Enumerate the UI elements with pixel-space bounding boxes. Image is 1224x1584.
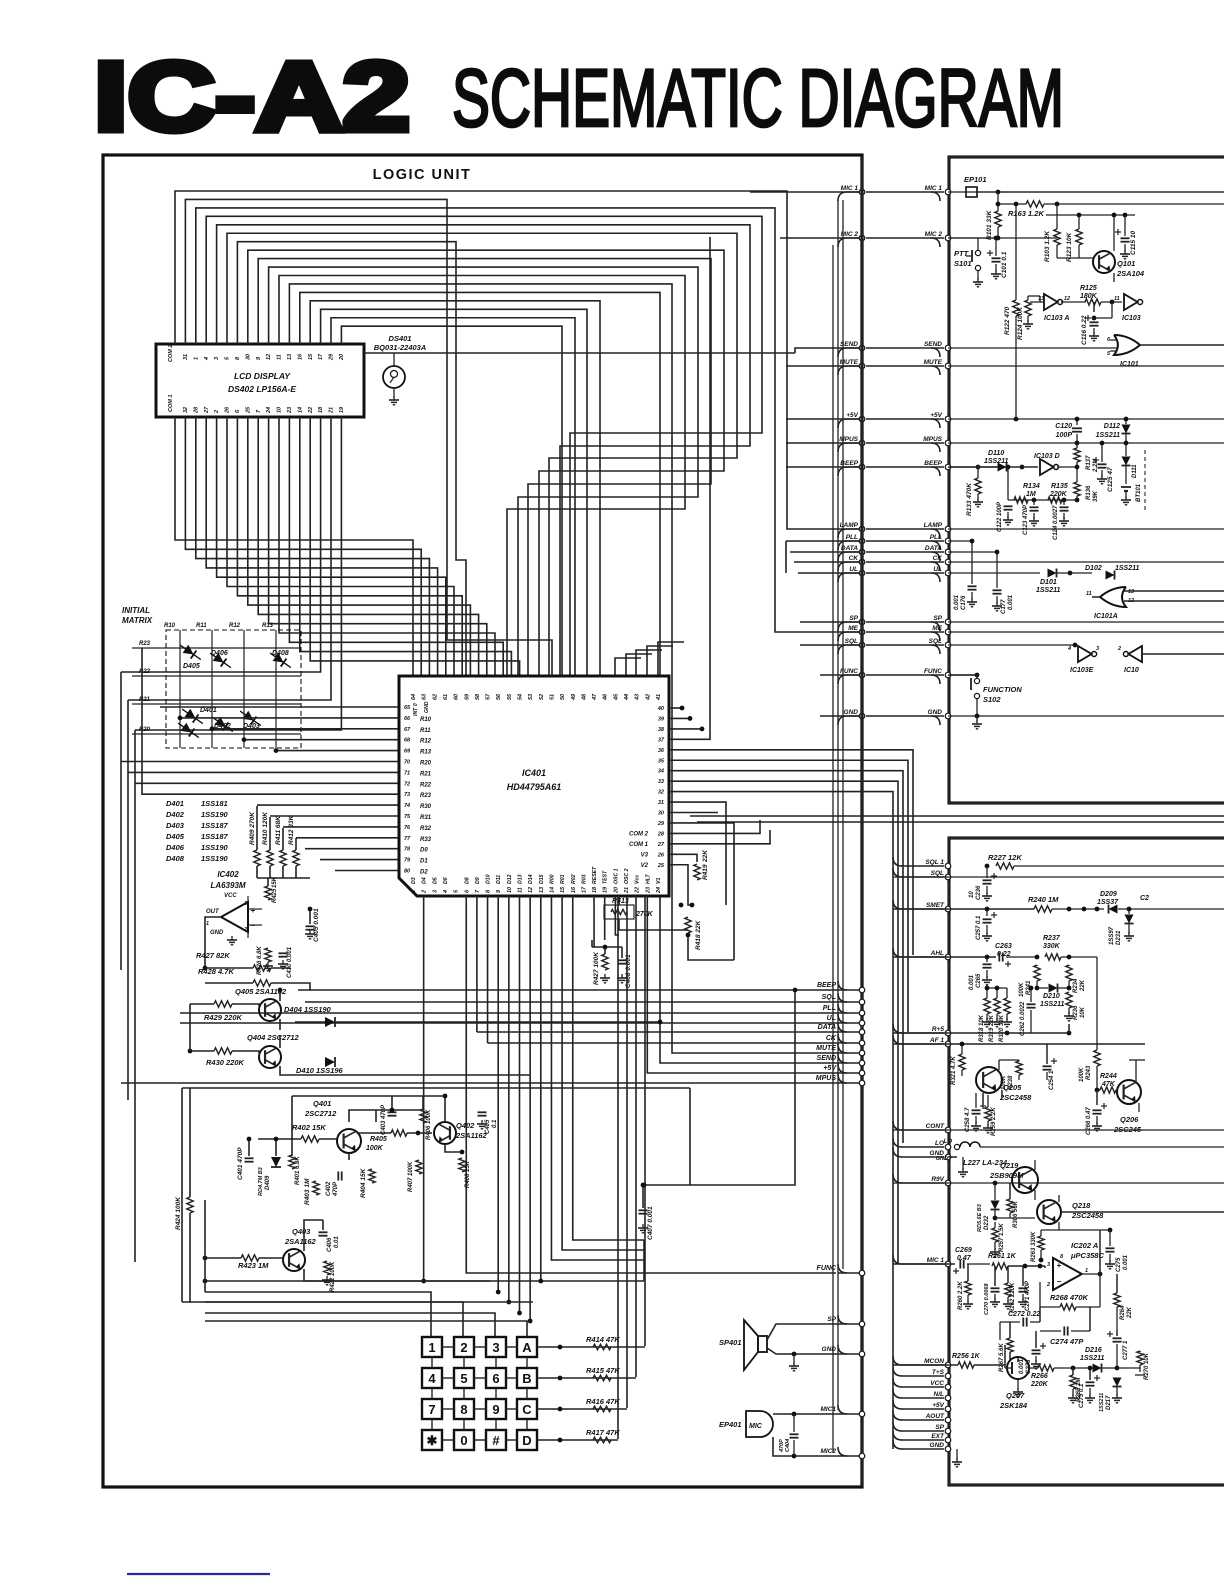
svg-text:R410 120K: R410 120K [262,811,269,845]
svg-text:IC202 A: IC202 A [1071,1241,1098,1250]
svg-text:C116 0.22: C116 0.22 [1081,315,1088,345]
svg-text:C403 470P: C403 470P [381,1104,387,1135]
inductor L227 [954,1144,959,1149]
logic unit right rail [860,157,863,1485]
svg-text:GND: GND [210,930,224,936]
svg-text:1: 1 [411,890,417,893]
svg-text:18: 18 [318,406,324,413]
svg-text:1SS211: 1SS211 [984,458,1008,465]
svg-text:MIC 2: MIC 2 [925,231,943,238]
svg-text:R404 15K: R404 15K [360,1167,367,1198]
svg-text:C101 0.1: C101 0.1 [1001,251,1008,278]
svg-text:47: 47 [592,693,598,701]
svg-text:IC10: IC10 [1124,667,1139,674]
R238 C254 [1016,1061,1022,1075]
svg-text:100K: 100K [1001,1075,1007,1090]
resistors R409 R410 R411 R412 R425 [254,850,260,866]
svg-text:R401 6.8K: R401 6.8K [295,1156,301,1185]
svg-text:C275: C275 [1116,1257,1122,1272]
svg-text:C406: C406 [327,1237,333,1252]
resistors R318 R319 R320 C262 [986,988,988,998]
svg-text:R133 470K: R133 470K [966,482,973,516]
svg-text:4: 4 [428,1371,436,1386]
R260 C270 R262 C271 [965,1281,971,1295]
svg-text:D110: D110 [988,450,1004,457]
op-amp IC202A [1053,1258,1082,1290]
svg-text:R33: R33 [420,837,432,843]
svg-text:2SB909M: 2SB909M [989,1171,1024,1180]
svg-text:R267 5.6K: R267 5.6K [999,1343,1005,1372]
svg-text:DS402 LP156A-E: DS402 LP156A-E [228,384,296,394]
svg-text:R103 1.2K: R103 1.2K [1044,230,1051,262]
svg-text:SMET: SMET [926,902,945,909]
svg-text:D4: D4 [422,877,428,884]
svg-text:R9V: R9V [931,1176,944,1183]
svg-text:43: 43 [635,694,641,701]
svg-text:R402 15K: R402 15K [292,1123,326,1132]
resistors R414 R415 R416 R417 [537,1346,645,1348]
svg-text:R234: R234 [1073,978,1079,993]
transistor Q218 [1037,1200,1061,1224]
svg-text:Q219: Q219 [1000,1161,1019,1170]
wire bus LCD top pins to IC401 [175,191,862,529]
svg-text:D0: D0 [420,848,428,854]
svg-text:R406 100K: R406 100K [426,1109,432,1140]
svg-text:30: 30 [245,354,251,360]
svg-text:R260 2.2K: R260 2.2K [958,1281,964,1310]
svg-text:1SS211: 1SS211 [1080,1355,1104,1362]
svg-text:D209: D209 [1100,891,1117,898]
svg-text:C254 1: C254 1 [1049,1070,1055,1090]
svg-text:Q403: Q403 [292,1227,311,1236]
svg-text:61: 61 [443,694,449,700]
svg-text:D12: D12 [507,874,513,884]
resistor R163 [1026,201,1044,207]
keypad matrix 4x4 [422,1337,442,1357]
svg-text:R136: R136 [1086,485,1092,500]
svg-text:LO: LO [944,1139,953,1145]
svg-text:76: 76 [404,825,411,831]
svg-text:LO: LO [935,1140,944,1147]
svg-text:C408 0.001: C408 0.001 [625,954,632,988]
svg-text:V3: V3 [641,852,649,858]
main unit row wires [948,191,1224,193]
svg-text:17: 17 [318,353,324,360]
svg-text:49: 49 [571,693,577,701]
svg-text:0.1: 0.1 [492,1119,498,1128]
svg-text:COM 1: COM 1 [168,395,174,412]
svg-text:11: 11 [1086,591,1092,597]
svg-text:+: + [1057,1261,1062,1270]
wire inter-unit horizontals [690,815,1224,817]
svg-text:20: 20 [339,354,345,361]
wire CONT row [893,1129,1224,1131]
svg-text:UL: UL [933,566,942,573]
svg-text:SEND: SEND [924,341,942,348]
svg-text:ME: ME [932,625,942,632]
svg-text:R11: R11 [420,728,431,734]
or-gate IC101A [1100,587,1126,607]
svg-text:1SS211: 1SS211 [1036,587,1060,594]
svg-text:D6: D6 [443,877,449,884]
svg-text:52: 52 [539,694,545,700]
svg-text:Q207: Q207 [1006,1391,1025,1400]
svg-text:IC103 D: IC103 D [1034,453,1060,460]
svg-text:69: 69 [404,749,411,755]
resistor R263 [1038,1236,1044,1250]
wire IC401 bottom pin routing [205,1292,431,1337]
svg-text:R306 56K: R306 56K [1013,1200,1019,1228]
svg-text:1: 1 [428,1340,435,1355]
svg-text:3: 3 [492,1340,499,1355]
svg-text:C123 470P: C123 470P [1023,504,1029,535]
svg-text:OUT: OUT [206,909,220,915]
initial matrix dashed box [166,630,301,748]
svg-text:C176: C176 [961,595,967,610]
svg-text:40: 40 [657,706,664,712]
svg-text:5: 5 [460,1371,467,1386]
svg-text:12: 12 [266,354,272,360]
svg-text:2SA1162: 2SA1162 [455,1131,488,1140]
svg-text:1SS190: 1SS190 [201,843,229,852]
svg-text:22K: 22K [1127,1306,1133,1319]
svg-text:SP: SP [933,615,942,622]
svg-text:C120: C120 [1055,423,1072,430]
svg-text:D408: D408 [272,650,289,657]
svg-text:D406: D406 [211,650,228,657]
svg-text:D13: D13 [518,874,524,884]
resistor R240 diode D209 [1034,906,1052,912]
svg-text:3: 3 [244,901,247,907]
capacitor C407 [639,1209,648,1211]
svg-text:58: 58 [475,693,481,700]
svg-text:12: 12 [528,887,534,893]
capacitor C274 [1063,1327,1065,1336]
svg-text:D408: D408 [166,854,185,863]
svg-text:11: 11 [518,887,524,893]
svg-text:10: 10 [507,887,513,893]
resistor R268 [1060,1304,1076,1310]
svg-text:16: 16 [297,353,303,360]
svg-text:35: 35 [658,758,665,764]
svg-text:D111: D111 [1132,464,1138,478]
capacitor C115 [1121,237,1130,239]
svg-text:R416 47K: R416 47K [586,1397,620,1406]
microcontroller U IC401 [399,676,669,896]
svg-text:R22: R22 [139,669,151,675]
svg-text:C115 10: C115 10 [1130,231,1137,255]
resistor R237 [1045,954,1061,960]
svg-text:22K: 22K [1080,979,1086,992]
svg-text:26: 26 [657,852,665,858]
svg-text:R125: R125 [1080,285,1097,292]
svg-text:SQL: SQL [822,994,836,1001]
svg-text:C124 0.0027: C124 0.0027 [1053,505,1059,540]
svg-text:70: 70 [404,760,410,766]
svg-text:MUTE: MUTE [924,359,943,366]
svg-text:R02: R02 [571,874,577,884]
svg-text:1SS187: 1SS187 [201,821,229,830]
svg-text:68: 68 [404,738,411,744]
svg-text:DS401: DS401 [389,334,412,343]
svg-text:C236: C236 [976,885,982,900]
diode D111 battery BT101 [1125,443,1127,456]
svg-text:0.001: 0.001 [954,594,960,610]
svg-text:R430 220K: R430 220K [206,1058,245,1067]
svg-text:R22: R22 [420,782,432,788]
svg-text:0.01: 0.01 [334,1236,340,1248]
svg-text:62: 62 [432,694,438,700]
transistor Q219 [1012,1167,1038,1193]
svg-text:IC101: IC101 [1120,361,1139,368]
svg-text:77: 77 [404,836,411,842]
svg-text:OSC 1: OSC 1 [613,868,619,884]
resistors R134 R135 [1007,467,1009,500]
svg-text:R407 100K: R407 100K [408,1161,414,1192]
svg-text:B: B [522,1371,531,1386]
svg-text:67: 67 [404,727,411,733]
svg-text:100K: 100K [366,1145,384,1152]
svg-text:1SS190: 1SS190 [201,854,229,863]
svg-text:100K: 100K [1079,1067,1085,1082]
svg-text:PLL: PLL [930,534,942,541]
svg-text:25: 25 [245,406,251,414]
svg-text:2SC2458: 2SC2458 [999,1093,1032,1102]
svg-text:C: C [522,1402,532,1417]
capacitors C176 C177 [971,541,973,584]
svg-text:10: 10 [969,891,975,898]
svg-text:D9: D9 [475,877,481,884]
svg-text:24: 24 [656,887,662,894]
svg-text:28: 28 [657,831,665,837]
svg-text:2: 2 [422,890,428,894]
svg-text:220K: 220K [1030,1381,1049,1388]
svg-text:R259 2.2K: R259 2.2K [991,1107,997,1136]
resistor R424 [187,1197,193,1213]
svg-text:FUNC: FUNC [924,668,942,675]
svg-text:C404: C404 [785,1439,791,1452]
svg-text:D410 1SS196: D410 1SS196 [296,1066,344,1075]
svg-text:UL: UL [849,566,858,573]
resistor R257 [992,1228,998,1242]
diode D231 [1128,909,1130,914]
svg-text:R403 1M: R403 1M [304,1178,311,1205]
svg-text:CK: CK [933,555,944,562]
svg-text:LCD DISPLAY: LCD DISPLAY [234,371,291,381]
svg-text:D231: D231 [1116,930,1122,945]
svg-text:IC103E: IC103E [1070,667,1094,674]
svg-text:DATA: DATA [925,545,942,552]
svg-text:D14: D14 [528,874,534,884]
svg-text:0: 0 [460,1433,467,1448]
wire left wall bus [120,672,122,970]
svg-text:45: 45 [613,693,619,701]
svg-text:30: 30 [658,811,664,817]
svg-text:Q402: Q402 [456,1121,475,1130]
svg-text:R414 47K: R414 47K [586,1335,620,1344]
svg-text:1SS211: 1SS211 [1115,565,1139,572]
svg-text:1SS37: 1SS37 [1097,899,1119,906]
resistors R103 R123 [1054,229,1060,245]
svg-text:C277 1: C277 1 [1123,1340,1129,1360]
C258 R259 [972,1109,981,1111]
svg-text:R426 6.8K: R426 6.8K [257,946,263,975]
svg-text:R412 33K: R412 33K [288,814,295,845]
blue footer line [127,1573,270,1575]
svg-text:#: # [492,1433,500,1448]
svg-text:59: 59 [464,693,470,700]
svg-text:T+S: T+S [932,1369,945,1376]
svg-text:15: 15 [308,353,314,360]
svg-text:FUNC: FUNC [817,1265,837,1272]
diodes D101 D102 [1048,569,1057,578]
svg-text:MIC2: MIC2 [820,1448,836,1455]
svg-text:N/L: N/L [934,1391,945,1398]
svg-text:Q218: Q218 [1072,1201,1091,1210]
svg-text:10: 10 [277,407,283,413]
resistor R101 [995,211,1001,227]
svg-text:51: 51 [549,694,555,700]
svg-text:2: 2 [214,410,220,414]
svg-text:13: 13 [539,887,545,893]
svg-text:32: 32 [658,790,664,796]
svg-text:18: 18 [592,886,598,893]
svg-text:66: 66 [404,716,411,722]
svg-text:1: 1 [1085,1268,1088,1274]
svg-text:COM 1: COM 1 [629,842,649,848]
capacitor C116 [1093,302,1095,312]
svg-text:EP101: EP101 [964,175,987,184]
svg-text:R13: R13 [420,750,432,756]
svg-text:R257 1.5K: R257 1.5K [999,1223,1005,1252]
resistors R137 R136 [1074,448,1080,462]
svg-text:MATRIX: MATRIX [122,616,153,625]
resistor R244 [1100,1087,1116,1093]
svg-text:R240 1M: R240 1M [1028,895,1059,904]
connector pins lower [859,987,865,993]
svg-text:SQL: SQL [931,870,944,877]
svg-text:D403: D403 [166,821,185,830]
svg-text:2: 2 [460,1340,467,1355]
svg-text:+: + [251,906,256,915]
svg-text:19: 19 [339,406,345,413]
svg-text:80: 80 [404,869,410,875]
svg-text:R20: R20 [139,727,151,733]
svg-text:MIC 1: MIC 1 [927,1257,945,1264]
svg-text:MIC 1: MIC 1 [841,185,859,192]
svg-text:1: 1 [206,921,209,927]
svg-text:R417 47K: R417 47K [586,1428,620,1437]
svg-text:0.001: 0.001 [1019,1358,1025,1374]
svg-text:R11: R11 [196,623,207,629]
svg-text:R10: R10 [164,623,176,629]
svg-text:D216: D216 [1085,1347,1102,1354]
svg-text:C402: C402 [326,1181,332,1196]
svg-text:27: 27 [657,842,665,848]
svg-text:R21: R21 [420,771,432,777]
svg-text:IC101A: IC101A [1094,613,1118,620]
svg-text:Q404 2SC2712: Q404 2SC2712 [247,1033,300,1042]
svg-text:53: 53 [528,694,534,700]
svg-text:VCC: VCC [930,1380,944,1387]
svg-text:100K: 100K [1019,982,1025,997]
flag FUNC [838,1264,847,1273]
svg-text:D217: D217 [1106,1395,1112,1410]
svg-text:D112: D112 [1104,423,1120,430]
svg-text:R21: R21 [139,697,151,703]
svg-text:MIC 1: MIC 1 [925,185,943,192]
svg-text:0.001: 0.001 [969,974,975,990]
svg-text:Q401: Q401 [313,1099,331,1108]
svg-text:23: 23 [645,887,651,894]
svg-text:15K: 15K [272,876,278,888]
transistor Q101 [1093,251,1115,273]
svg-text:R427 100K: R427 100K [593,951,600,985]
svg-text:R01: R01 [560,874,566,884]
svg-text:2SC2712: 2SC2712 [304,1109,337,1118]
wire IC401 right pins routing [669,707,682,709]
svg-text:9: 9 [492,1402,499,1417]
svg-text:31: 31 [183,354,189,360]
svg-text:HLT: HLT [645,873,651,884]
svg-text:R31: R31 [420,815,432,821]
svg-text:1SS211: 1SS211 [1040,1001,1064,1008]
svg-text:R261 1K: R261 1K [988,1253,1017,1260]
capacitor C120 [1076,419,1078,425]
svg-text:D15: D15 [539,874,545,884]
svg-text:27: 27 [204,406,210,414]
capacitor C275 [1106,1247,1115,1249]
svg-text:1SS211: 1SS211 [1099,1393,1105,1412]
svg-text:+5V: +5V [930,412,942,419]
resistor R256 [958,1362,974,1368]
resistor R321 [959,1054,965,1070]
logic unit box [103,155,862,1487]
svg-text:1SS187: 1SS187 [201,832,229,841]
wire R9V row [893,1182,1224,1184]
svg-text:32: 32 [183,407,189,413]
svg-text:3: 3 [432,890,438,893]
svg-text:CONT: CONT [926,1123,945,1130]
svg-text:RD4.7M B3: RD4.7M B3 [258,1167,264,1196]
svg-text:IC402: IC402 [217,870,239,879]
svg-text:R405: R405 [370,1136,387,1143]
svg-text:V1: V1 [656,878,662,884]
svg-text:R23: R23 [139,641,151,647]
svg-text:13: 13 [1038,296,1044,302]
capacitor C257 [986,909,988,916]
svg-text:C270 0.0068: C270 0.0068 [984,1283,990,1315]
svg-text:COM 2: COM 2 [629,831,649,837]
svg-text:R256 1K: R256 1K [952,1353,981,1360]
svg-text:44: 44 [624,694,630,701]
svg-text:AOUT: AOUT [925,1413,945,1420]
svg-text:Vcc: Vcc [635,875,641,884]
wire connector feed stubs [364,352,795,354]
svg-text:23: 23 [287,407,293,414]
svg-text:20: 20 [613,887,619,894]
svg-text:D101: D101 [1040,579,1057,586]
svg-text:8: 8 [460,1402,467,1417]
svg-text:R427 82K: R427 82K [196,951,230,960]
svg-text:33: 33 [658,779,664,785]
inverter IC103D [1040,459,1054,475]
svg-text:GND: GND [424,701,430,713]
svg-text:7: 7 [428,1402,435,1417]
svg-text:17: 17 [581,886,587,893]
C273 R267 [1032,1349,1041,1351]
svg-text:R264: R264 [1120,1305,1126,1320]
